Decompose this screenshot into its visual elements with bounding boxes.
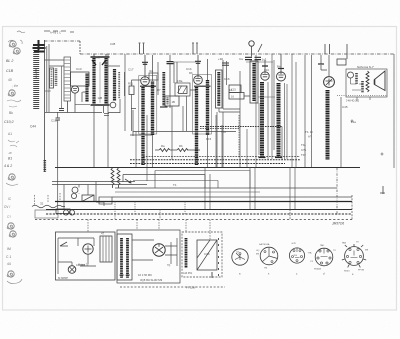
coil box center line [99,62,101,103]
wire L3 up to chassis [94,54,106,57]
coil L14 (hatched bar) [326,90,330,160]
wire drop x57 [57,112,59,181]
pinout base A pins [239,253,241,255]
pinout base E pin circles [349,248,351,250]
PSU motor M1 [83,244,93,254]
PSU wires left box [58,238,96,274]
margin rosette scribble 6 [9,231,16,237]
loudspeaker back [374,80,376,85]
PSU lamp M2 [68,266,76,274]
rectifier V8 filament [155,244,163,253]
tube V1 envelope [71,86,78,93]
frame aerial lead right [46,46,48,112]
grid cap V6 [318,63,324,65]
IF can outline T3 [193,75,212,135]
wire under output box [357,97,370,101]
wire from tuning cap [67,101,69,113]
chassis dash-dot main line [80,53,394,55]
pinout base E pin bumps [342,244,366,267]
resistor Rb zigzag [177,149,188,152]
PSU drop wires from buses [88,220,210,241]
chassis bus line 2 [46,209,352,211]
coil L12 (hatched bar) [260,82,264,157]
output transformer box [346,69,387,97]
wire grid V6 [321,55,329,76]
wire heater horizontals [52,182,147,185]
pinout base E circle [345,247,364,266]
chassis dash-dot corner drop [79,41,81,54]
aerial socket pin [252,44,263,57]
PSU lamp M2 cross [70,267,75,272]
wire x61 [61,66,63,108]
wire x133 drop cap [130,109,152,137]
pinout base D pin circles [319,250,321,252]
resistor R21 zigzag vertical [117,168,120,188]
dash-dot vertical x337 [336,168,338,215]
PSU switch S1 [60,242,68,246]
loudspeaker cone [375,71,386,91]
pilot tube circle 2 [71,193,76,198]
screen box around L2 [71,72,90,86]
wire x131 drop [132,80,142,131]
padder box 2 [229,93,244,100]
transformer winding bar 1 [120,238,123,278]
IF can outline T2 [139,76,157,135]
resistor R10 hatch [51,69,53,87]
resistor R12 (box) [179,86,188,94]
tube V4 envelope [261,72,269,80]
pinout base D circle [315,248,333,266]
right frame vertical wire [393,54,395,168]
chassis dashed earth line [35,219,352,221]
wire grid lead V2 [144,55,146,77]
switch box [82,195,94,202]
pinout base B wedge [263,248,278,262]
capacitor C14 [56,118,61,120]
wire y180 nested [133,181,218,189]
coil L3 top cap [91,57,110,65]
margin rosette scribble 2 [13,48,20,54]
junction box on bus [99,197,112,204]
dashed riser x239 [238,115,240,158]
oscillator coil box [216,70,223,108]
tube V7 small envelope [348,72,354,78]
wire riser x183 [172,90,196,160]
wire L3 down [94,106,104,167]
tube V6 electrodes [326,79,333,86]
capacitor C19 [167,62,174,64]
dial lamp 2 [69,210,74,215]
dashed vertical x290b [289,210,291,220]
tube V2 envelope [141,77,150,86]
margin rosette scribble 1 [9,41,16,47]
wire risers osc [217,60,250,167]
AVC wavy bus upper [130,159,300,161]
pinout base D key lines [321,249,328,257]
coil L8 small (hatched) [166,98,168,105]
wire riser x170 [169,55,171,108]
coil L3 (hatched bar) [92,58,95,104]
chassis dash-dot line upper-left [44,40,80,42]
mains transformer inner lines [103,236,109,262]
AVC zigzag line upper [200,126,282,128]
plus mark right 2 [381,153,384,156]
wire L7 top [152,55,154,81]
coil L5 (hatched bar) [113,69,116,101]
AVC zigzag line lower [200,128,240,130]
wire risers mid-left [108,54,125,167]
wire y174 [123,175,205,189]
wire x158 [157,62,159,95]
AVC wavy bus lower [130,163,285,165]
mains transformer box small [100,236,112,262]
coil L13 bottom cap [275,157,282,159]
wire horizontal y62 [173,61,196,63]
margin top squiggle [17,31,25,33]
pinout base C key [295,248,300,258]
tube V5 electrodes [278,73,283,78]
wire grid V4 [264,60,266,72]
resistor Ra box right of V2 [149,73,158,80]
PSU choke wires [132,238,177,266]
wire input node [44,44,64,112]
rectifier tube V8 [153,244,165,256]
speaker box terminals [212,238,219,278]
AVC wavy bus top [143,156,300,158]
pinout base C circle [289,248,304,263]
PSU right box outline [182,232,222,277]
wire y188 [115,187,337,189]
PSU motor M1 cross [85,246,92,253]
margin rosette petals extra [8,40,22,44]
dotted line under speaker [337,95,387,97]
wire horizontal y97 [258,96,275,98]
mains entry dashes [35,193,61,205]
frame aerial rod (hatched) [33,50,39,109]
capacitor C1+2 [255,57,262,59]
wire horizontal y112 [45,112,120,114]
grid cap C17 [142,62,148,64]
margin faint marks [8,140,19,147]
coil L9/L10 top cap [194,85,211,87]
oscillator unit box [165,96,179,106]
coil L3/L4 bottom cap [91,104,110,106]
bus drop connectors [115,202,185,220]
pilot tube circle [72,187,78,193]
wire drop x341 [340,97,342,167]
tube V3 envelope [194,76,203,85]
margin rosette scribble 5 [7,223,14,229]
aerial socket plug [249,41,254,46]
tube V4 electrodes [262,72,267,77]
PSU left box [56,232,116,280]
tube V6 envelope [324,77,335,88]
capacitor C10 [59,109,64,111]
coil L13 (hatched bar) [277,83,281,157]
wire horizontal y104 [75,104,90,106]
wire resistor row [155,149,200,151]
coil L6 (hatched bar) [141,87,144,165]
aerial junction blob [33,40,46,52]
power transformer box [117,234,132,280]
PSU speaker box [197,240,217,270]
wire below V1 [75,92,87,113]
frame aerial lead left [44,40,46,172]
wire horizontal y62b [246,61,273,63]
coil L7 (hatched bar) [151,82,154,136]
wire grid lead V3 [197,55,199,76]
coil L4 (hatched bar) [104,58,107,104]
margin rosette tail [6,183,18,185]
mains entry wavy wire [32,205,65,208]
shield wires V3 [192,43,198,54]
chassis bus line 1 [55,201,352,203]
field coil zigzag [366,71,369,92]
mains entry box [35,210,58,218]
grid coil box [250,61,258,103]
wire y170 nested [155,171,250,189]
resistor R11 (box) [129,86,134,95]
tube V1 electrodes [73,89,77,91]
margin rosette scribble 7 [7,271,14,277]
chassis dashed bus line 3 [46,213,352,215]
shield wires V6 [325,44,347,59]
PSU middle box [117,230,180,283]
wire mark right x383 [380,186,385,194]
coil L16 (hatched bar) [361,81,364,93]
transformer winding bar 2 [126,238,129,278]
wire L10 top [207,59,209,80]
coil L11 (hatched bar) [217,72,220,106]
wire grid V5 [280,54,282,72]
wire L7 continuation [152,135,154,167]
wire bus y197 [112,196,352,198]
grid cap V4 [262,65,268,67]
resistor Ra zigzag [159,149,170,152]
switch box diagonal [82,195,94,202]
resistor R20 zigzag vertical [111,168,114,188]
wire horizontal y131 [133,131,236,133]
resistor R10 (box) [50,68,54,88]
pinout base B pin circles [264,251,266,253]
PSU right coil (hatched bar) [185,238,188,268]
coil L10 (hatched bar) [206,80,209,135]
tuning capacitor ladder [64,57,71,101]
coil L15 small (hatched) [355,73,358,84]
pinout base E key [351,251,358,258]
resistor R10b (hatched bar) [55,69,58,87]
tube V1b small envelope [110,102,116,108]
tube V2 electrodes [142,77,147,82]
wire y195 [115,191,260,193]
wire pair x174-177 [174,62,177,83]
margin rosette scribble 4 [8,174,15,180]
wire horizontal y66 [104,66,120,116]
tube V5 envelope [277,72,286,81]
tube V3 electrodes [195,76,200,81]
plus mark right 1 [351,120,354,123]
wire risers mid [136,115,247,181]
wire L10 continuation [207,135,209,167]
padder box 1 [229,85,241,93]
shield wires V2 [139,43,145,54]
wire risers detector area [256,54,296,167]
aerial rod lower hatch [43,160,46,172]
small box fuse [56,209,70,214]
PSU speaker diagonals [197,240,217,270]
PSU bottom dashes [120,286,225,288]
aerial top ticks [44,31,74,32]
AVC drop x282 [281,127,283,161]
coupling coil bottom cap [160,106,168,108]
main HT bus [55,167,360,169]
pinout base A circle [232,249,248,265]
pinout base C pin circles [293,250,295,252]
margin tail scribble [7,279,22,284]
tuning capacitor plates [65,60,71,98]
output box internal wires [351,78,364,90]
coil L11b (hatched bar) [252,63,255,101]
wire heater drops [58,181,104,209]
margin squiggle mid [7,100,21,107]
capacitor C9 [222,63,229,65]
pinout base B circle [260,247,278,265]
tube V5 top cap [278,68,284,70]
dial lamp 1 [63,210,68,215]
grid cap C1b [195,61,201,63]
wire drops to bus [205,167,295,209]
resistor Rc (box) [337,59,346,65]
diode box A diagonals [178,86,188,93]
dashed vertical x352 [351,195,353,220]
diode box A [175,83,190,96]
arrow mark [125,179,131,183]
wire risers output left [305,55,312,167]
capacitor Ca [245,57,252,59]
coil L2 (hatched bar) [85,74,88,103]
margin rosette scribble 3 [8,90,15,96]
coil L9 (hatched bar) [195,87,198,165]
coupling coil bar [162,72,165,106]
coil L6/L7 top cap [140,85,156,87]
coil L5b thin [118,72,120,99]
coil L12 bottom cap [259,157,266,159]
